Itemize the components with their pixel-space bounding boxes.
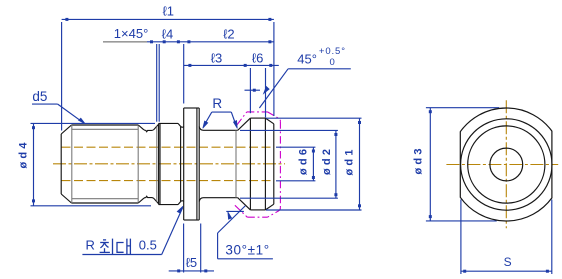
svg-text:45°: 45° <box>297 52 317 67</box>
svg-text:ℓ1: ℓ1 <box>163 4 174 19</box>
svg-text:+0.5°: +0.5° <box>319 46 346 57</box>
svg-text:ℓ2: ℓ2 <box>223 26 234 41</box>
svg-text:ød1: ød1 <box>343 146 355 175</box>
svg-text:ℓ3: ℓ3 <box>211 50 222 65</box>
svg-text:R: R <box>212 96 222 111</box>
svg-text:ød6: ød6 <box>298 146 310 175</box>
svg-text:0: 0 <box>330 57 335 68</box>
svg-text:ød2: ød2 <box>321 146 333 175</box>
svg-text:0.5: 0.5 <box>139 238 157 253</box>
svg-text:30°±1°: 30°±1° <box>225 243 269 258</box>
svg-text:1×45°: 1×45° <box>114 26 148 41</box>
svg-text:ℓ4: ℓ4 <box>162 26 173 41</box>
svg-text:ℓ5: ℓ5 <box>186 255 197 270</box>
svg-text:R: R <box>86 238 95 253</box>
svg-text:d5: d5 <box>32 89 47 104</box>
svg-text:ød3: ød3 <box>412 145 424 174</box>
svg-text:S: S <box>504 255 512 269</box>
svg-text:ød4: ød4 <box>18 139 30 168</box>
svg-text:ℓ6: ℓ6 <box>252 50 263 65</box>
